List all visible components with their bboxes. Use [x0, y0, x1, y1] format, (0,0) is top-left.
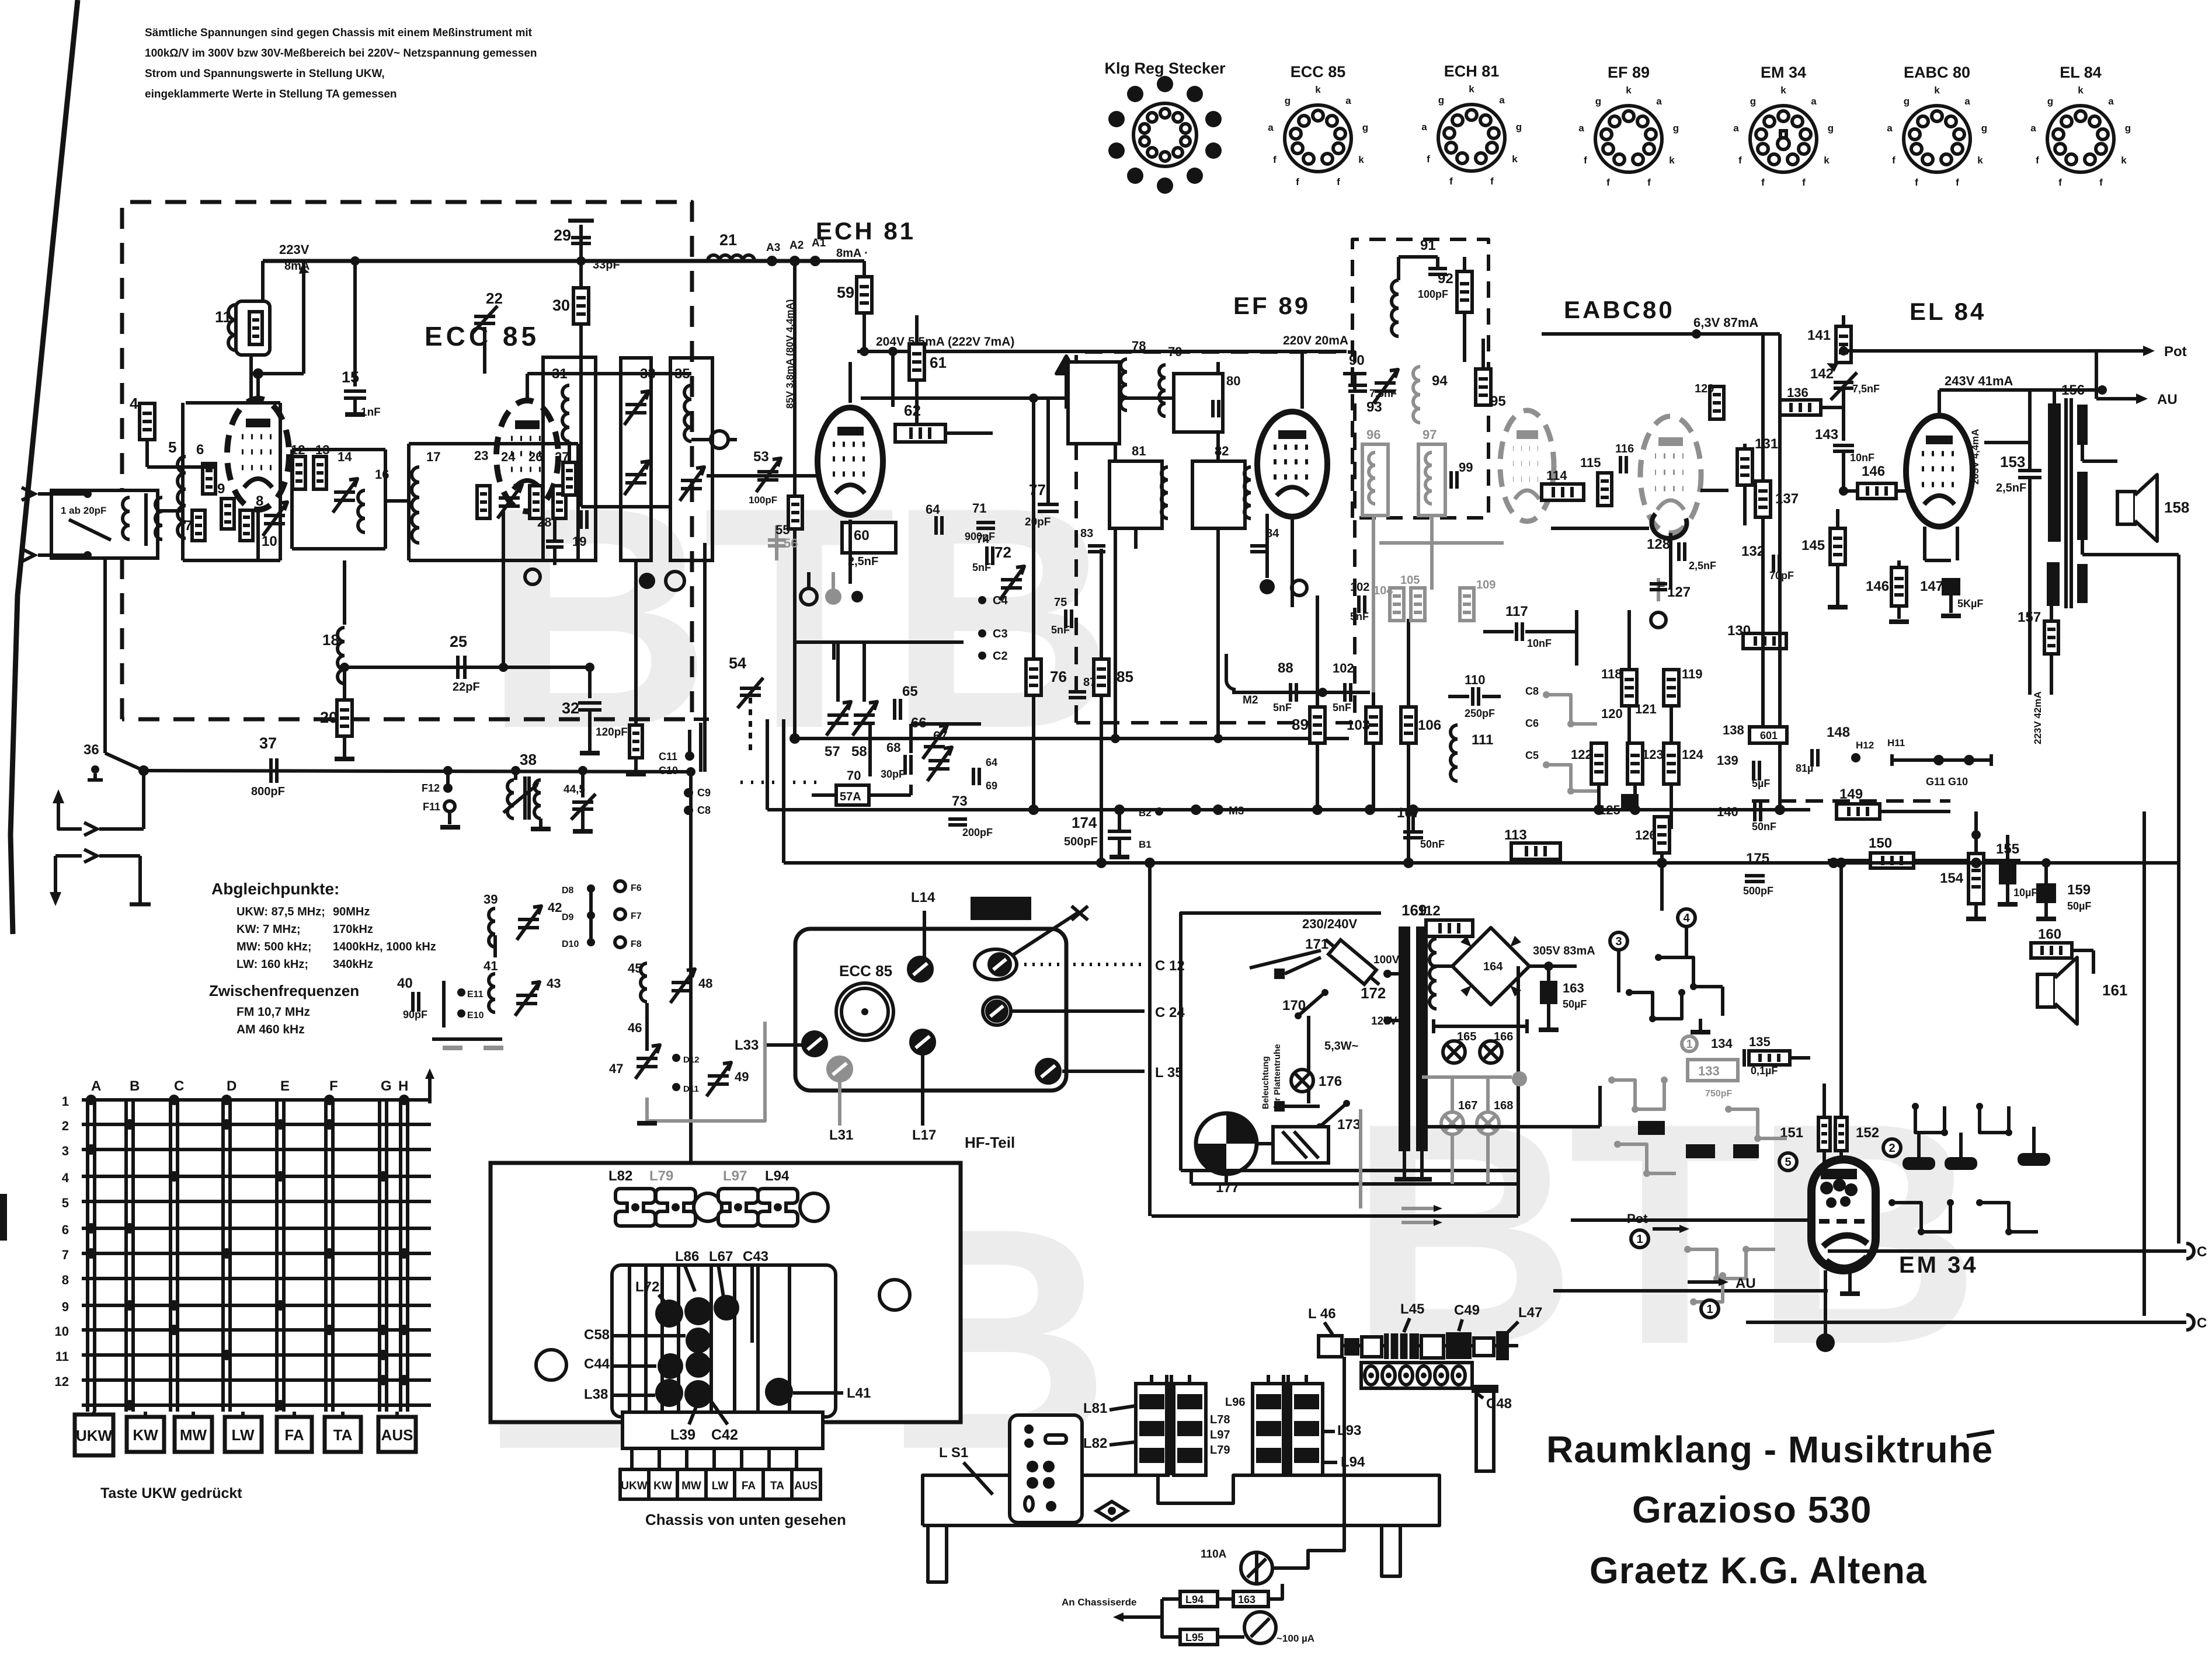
dash mark	[1967, 1431, 1994, 1436]
svg-text:UKW: UKW	[76, 1427, 113, 1444]
svg-text:7: 7	[185, 518, 192, 534]
tube EF 89	[1257, 412, 1327, 517]
svg-text:C8: C8	[1525, 685, 1539, 697]
svg-text:3: 3	[62, 1144, 69, 1158]
svg-text:25: 25	[450, 633, 467, 650]
capacitor 28	[579, 510, 583, 529]
trimmer 53	[707, 474, 818, 478]
capacitor 75	[1064, 609, 1067, 628]
svg-text:85V 3,8mA (80V 4,4mA): 85V 3,8mA (80V 4,4mA)	[784, 299, 795, 409]
svg-text:223V: 223V	[279, 242, 309, 257]
svg-text:g: g	[1828, 123, 1834, 134]
chassis leg 2	[1382, 1525, 1400, 1576]
wire osc cluster	[848, 520, 852, 584]
terminal F12	[446, 771, 450, 785]
svg-text:1nF: 1nF	[361, 406, 381, 419]
coil 18	[343, 560, 346, 625]
svg-text:f: f	[1915, 177, 1918, 188]
resistor 131	[1737, 449, 1752, 485]
svg-text:L 46: L 46	[1308, 1306, 1336, 1322]
svg-text:L93: L93	[1337, 1423, 1361, 1438]
svg-text:176: 176	[1319, 1074, 1342, 1089]
svg-text:103: 103	[1347, 717, 1370, 733]
svg-text:58: 58	[851, 744, 867, 760]
svg-text:a: a	[1268, 122, 1274, 133]
svg-text:f: f	[1490, 176, 1494, 187]
button TA	[325, 1417, 361, 1452]
svg-text:24: 24	[501, 450, 516, 464]
rectifier 164 bridge	[1452, 928, 1529, 1005]
svg-text:g: g	[1673, 123, 1679, 134]
svg-text:H11: H11	[1887, 737, 1905, 748]
svg-text:50nF: 50nF	[1420, 838, 1445, 850]
svg-text:72: 72	[994, 544, 1011, 561]
svg-text:Chassis von unten gesehen: Chassis von unten gesehen	[645, 1511, 846, 1528]
svg-text:133: 133	[1698, 1064, 1720, 1078]
resistor 8	[240, 510, 253, 541]
svg-text:2: 2	[1888, 1142, 1895, 1155]
tube EABC80 diode section dashed gray	[1500, 410, 1554, 521]
wire IF bottom bus	[795, 737, 1349, 740]
button MW	[175, 1417, 212, 1452]
wire AU arrow	[2096, 397, 2137, 400]
svg-text:C: C	[174, 1078, 184, 1094]
wire	[2053, 390, 2056, 403]
svg-text:L96: L96	[1225, 1396, 1245, 1409]
wire	[589, 889, 593, 942]
svg-text:161: 161	[2102, 981, 2127, 999]
svg-text:67: 67	[933, 729, 947, 743]
wire heater run	[1426, 1125, 1600, 1128]
pointer X	[996, 912, 1079, 966]
capacitor 83	[1088, 544, 1105, 548]
svg-text:10: 10	[262, 534, 277, 549]
button FA	[277, 1417, 312, 1452]
svg-text:140: 140	[1717, 804, 1738, 819]
resistor 151	[1818, 1117, 1830, 1151]
svg-text:1400kHz, 1000 kHz: 1400kHz, 1000 kHz	[333, 940, 436, 953]
resistor 118	[1622, 670, 1637, 706]
knob L17	[911, 1030, 934, 1054]
svg-text:Sämtliche Spannungen sind gege: Sämtliche Spannungen sind gegen Chassis …	[145, 27, 533, 39]
svg-text:k: k	[1780, 85, 1786, 96]
trimmer 22	[474, 315, 495, 318]
capacitor 102	[1357, 595, 1361, 613]
svg-text:L17: L17	[912, 1127, 936, 1143]
elco 163	[1540, 981, 1557, 1004]
switch contacts gray mid	[1546, 695, 1597, 724]
svg-text:59: 59	[837, 284, 854, 301]
svg-text:30pF: 30pF	[881, 768, 905, 780]
resistor 95	[1476, 369, 1491, 405]
coil tower L82b	[1174, 1384, 1206, 1475]
svg-text:22pF: 22pF	[453, 681, 480, 694]
wire psu bottom	[1225, 1174, 1228, 1184]
svg-text:92: 92	[1438, 271, 1453, 287]
svg-text:5: 5	[1785, 1156, 1791, 1169]
trimmer 58	[854, 713, 875, 717]
svg-text:223V 42mA: 223V 42mA	[2032, 691, 2043, 744]
svg-text:152: 152	[1856, 1125, 1879, 1141]
svg-text:L45: L45	[1400, 1301, 1424, 1317]
svg-text:158: 158	[2164, 499, 2189, 516]
resistor 61	[909, 344, 924, 380]
svg-text:FA: FA	[284, 1426, 304, 1444]
svg-text:L39: L39	[670, 1427, 695, 1443]
svg-text:145: 145	[1801, 538, 1825, 553]
resistor 104 gray	[1390, 588, 1404, 621]
svg-text:MW: MW	[681, 1480, 701, 1492]
svg-text:EL 84: EL 84	[1910, 298, 1986, 325]
svg-text:L72: L72	[635, 1279, 659, 1295]
wires AF	[1575, 610, 1578, 666]
svg-text:EM 34: EM 34	[1761, 64, 1806, 81]
svg-text:f: f	[1802, 177, 1806, 188]
IF can 80	[1174, 374, 1223, 432]
svg-text:f: f	[1273, 154, 1277, 165]
svg-text:91: 91	[1420, 238, 1436, 253]
box sub chassis	[612, 1265, 836, 1417]
svg-text:173: 173	[1337, 1117, 1361, 1133]
svg-text:170kHz: 170kHz	[333, 923, 373, 936]
svg-text:8: 8	[62, 1273, 69, 1287]
transformer output secondary	[2077, 405, 2088, 445]
svg-text:174: 174	[1072, 814, 1097, 831]
capacitor 29	[579, 225, 583, 261]
svg-text:26: 26	[528, 450, 542, 464]
wire	[812, 793, 836, 797]
svg-text:18: 18	[322, 631, 339, 649]
svg-text:L97: L97	[723, 1168, 747, 1184]
svg-text:81µ: 81µ	[1796, 762, 1813, 774]
svg-text:Beleuchtung: Beleuchtung	[1261, 1056, 1271, 1109]
input jack 1	[84, 823, 97, 835]
svg-text:AM 460 kHz: AM 460 kHz	[236, 1023, 305, 1036]
svg-text:169: 169	[1401, 901, 1427, 919]
svg-text:61: 61	[930, 354, 947, 371]
capacitor 110	[1471, 687, 1474, 706]
svg-text:L31: L31	[829, 1127, 853, 1143]
capacitor 60 box	[842, 522, 896, 553]
resistor 135	[1749, 1051, 1790, 1065]
strip L39 C42	[622, 1412, 823, 1448]
wire drop to chassis	[689, 772, 693, 1163]
svg-text:42: 42	[548, 900, 562, 915]
svg-text:43: 43	[547, 976, 561, 991]
svg-text:k: k	[1824, 155, 1830, 166]
resistor 36 output	[666, 572, 684, 590]
capacitor 63	[934, 516, 938, 535]
svg-text:L14: L14	[911, 890, 935, 905]
resistor 126	[1621, 794, 1639, 811]
svg-text:50µF: 50µF	[1563, 998, 1587, 1010]
transformer output primary	[2048, 403, 2061, 542]
svg-text:56: 56	[784, 536, 798, 551]
capacitor 87	[1069, 690, 1086, 694]
terminal M2	[1225, 654, 1228, 680]
svg-text:159: 159	[2067, 882, 2091, 898]
svg-text:C10: C10	[659, 765, 678, 776]
svg-text:L97: L97	[1210, 1429, 1230, 1441]
terminal dots sub chassis	[655, 1300, 683, 1328]
svg-text:L47: L47	[1518, 1305, 1542, 1321]
tube EM 34 envelope	[1811, 1159, 1876, 1270]
trimmer 33	[621, 358, 651, 560]
svg-text:163: 163	[1563, 981, 1584, 995]
svg-text:78: 78	[1132, 339, 1146, 353]
black rect marker	[971, 897, 1031, 920]
svg-text:64: 64	[986, 757, 997, 768]
resistor 115	[1598, 473, 1612, 506]
svg-text:138: 138	[1723, 723, 1744, 737]
svg-text:KW: 7 MHz;: KW: 7 MHz;	[236, 923, 301, 936]
svg-text:48: 48	[698, 976, 712, 991]
antenna arrow up	[58, 796, 82, 829]
resistor 123	[1627, 743, 1643, 784]
svg-text:114: 114	[1546, 468, 1567, 483]
svg-text:A: A	[91, 1078, 101, 1094]
resistor 76	[1026, 659, 1041, 695]
svg-text:46: 46	[628, 1020, 642, 1035]
lamp 166	[1480, 1041, 1502, 1063]
svg-text:Grazioso 530: Grazioso 530	[1632, 1489, 1872, 1531]
svg-text:C44: C44	[584, 1356, 610, 1372]
capacitor 102	[1343, 683, 1347, 702]
hole oval chassis	[1097, 1502, 1127, 1520]
socket ECC85 top view	[836, 983, 893, 1040]
wire	[848, 362, 852, 377]
svg-text:30: 30	[552, 297, 570, 314]
svg-text:Pot: Pot	[1627, 1211, 1648, 1226]
resistor 119	[1664, 670, 1679, 706]
svg-text:C3: C3	[993, 628, 1008, 640]
svg-text:L41: L41	[847, 1385, 871, 1401]
svg-text:~100 µA: ~100 µA	[1277, 1633, 1314, 1644]
hole circle 4	[879, 1280, 910, 1310]
svg-text:100pF: 100pF	[749, 494, 777, 506]
resistor 149	[1837, 804, 1880, 819]
coil 31	[527, 372, 691, 375]
motor 177	[1196, 1113, 1257, 1174]
svg-text:127: 127	[1667, 584, 1691, 600]
svg-text:G: G	[381, 1078, 392, 1094]
capacitor 134	[1743, 1049, 1746, 1067]
wire 88 row	[1232, 691, 1370, 694]
wire shaft down	[1340, 1437, 1341, 1475]
svg-text:57: 57	[825, 744, 840, 760]
svg-text:eingeklammerte Werte in Stellu: eingeklammerte Werte in Stellung TA geme…	[145, 88, 397, 100]
svg-text:L78: L78	[1210, 1413, 1230, 1426]
svg-text:2,5nF: 2,5nF	[848, 555, 878, 568]
svg-text:94: 94	[1432, 373, 1448, 389]
svg-text:220V 20mA: 220V 20mA	[1283, 334, 1348, 347]
svg-text:102: 102	[1350, 581, 1369, 594]
svg-text:110A: 110A	[1201, 1548, 1227, 1560]
svg-text:MW: 500 kHz;: MW: 500 kHz;	[236, 940, 312, 953]
svg-text:204V 5,5mA (222V 7mA): 204V 5,5mA (222V 7mA)	[876, 335, 1014, 349]
wire bus 37	[144, 771, 691, 772]
svg-text:105: 105	[1400, 574, 1420, 587]
svg-text:M2: M2	[1243, 694, 1258, 706]
button KW	[127, 1417, 164, 1452]
trimmer 72	[1001, 578, 1022, 581]
svg-text:f: f	[1296, 176, 1299, 187]
svg-text:C49: C49	[1454, 1302, 1480, 1318]
svg-text:93: 93	[1366, 399, 1382, 415]
button LW	[225, 1417, 262, 1452]
connector stubs	[630, 1448, 634, 1469]
svg-text:F11: F11	[423, 801, 440, 813]
svg-text:L 35: L 35	[1155, 1065, 1183, 1081]
svg-text:L79: L79	[1210, 1444, 1230, 1457]
svg-text:5nF: 5nF	[972, 562, 991, 573]
transformer 169 secondary	[1416, 926, 1428, 1151]
svg-text:131: 131	[1755, 436, 1778, 452]
svg-text:f: f	[1738, 155, 1742, 166]
capacitor 15	[353, 261, 357, 386]
coil 79	[1159, 365, 1166, 378]
svg-text:KW: KW	[133, 1426, 158, 1444]
svg-text:a: a	[1656, 96, 1662, 107]
wire AU bus	[1553, 1289, 1828, 1293]
svg-text:7: 7	[62, 1248, 69, 1262]
resistor 9	[221, 499, 234, 529]
svg-text:C 12: C 12	[1155, 958, 1185, 974]
svg-text:172: 172	[1361, 984, 1386, 1002]
coil 16	[358, 490, 365, 504]
terminal D8 D9 D10	[587, 884, 595, 893]
trimmer 67	[928, 759, 950, 762]
transformer 11	[236, 301, 270, 355]
svg-text:F12: F12	[422, 782, 440, 794]
box HF-Teil	[795, 929, 1066, 1091]
resistor box B	[1233, 1591, 1268, 1607]
svg-text:E: E	[280, 1078, 290, 1094]
resistor 160	[2031, 943, 2072, 958]
svg-text:8: 8	[256, 493, 263, 509]
svg-text:160: 160	[2038, 926, 2061, 942]
antenna input terminals	[22, 487, 34, 500]
svg-text:203V 4,4mA: 203V 4,4mA	[1970, 429, 1981, 485]
svg-text:ECH 81: ECH 81	[816, 217, 916, 245]
coil 91	[1392, 280, 1399, 294]
contact G11 G10	[1892, 758, 1991, 762]
svg-text:69: 69	[986, 780, 997, 792]
svg-text:H12: H12	[1856, 740, 1874, 751]
svg-text:L82: L82	[1083, 1436, 1107, 1451]
resistor 7	[192, 510, 205, 541]
svg-text:f: f	[1606, 177, 1610, 188]
coil 5	[178, 457, 186, 473]
capacitor 88	[1289, 683, 1292, 702]
wire	[1114, 444, 1117, 461]
svg-text:36: 36	[84, 742, 99, 758]
svg-text:5: 5	[62, 1196, 69, 1210]
wire	[1669, 533, 1672, 590]
svg-text:F8: F8	[631, 939, 642, 949]
svg-text:4: 4	[130, 395, 138, 412]
terminal M3	[1191, 804, 1201, 815]
svg-text:F6: F6	[631, 883, 642, 893]
svg-text:L S1: L S1	[939, 1445, 968, 1461]
svg-text:73: 73	[952, 793, 968, 809]
svg-text:k: k	[1669, 155, 1675, 166]
svg-text:1: 1	[62, 1094, 69, 1109]
svg-text:165: 165	[1457, 1030, 1476, 1043]
shaft assembly	[1317, 1344, 1518, 1347]
resistor 33 lower	[629, 725, 642, 758]
svg-text:113: 113	[1504, 827, 1527, 843]
trimmer 49	[708, 1074, 729, 1078]
svg-text:9: 9	[217, 481, 225, 497]
svg-text:L94: L94	[765, 1168, 789, 1184]
wire transformer drops	[1403, 1151, 1406, 1168]
resistor 92	[1457, 271, 1472, 312]
trimmer 10	[264, 514, 285, 517]
knob L35	[1037, 1060, 1060, 1083]
wire	[183, 559, 280, 562]
resistor 150	[1891, 802, 1893, 803]
svg-text:119: 119	[1682, 667, 1703, 681]
svg-text:601: 601	[1760, 730, 1778, 741]
circ1 terminal	[1631, 1230, 1648, 1248]
IF can 97 gray	[1418, 444, 1445, 515]
svg-text:110: 110	[1465, 673, 1486, 687]
resistor 114 box	[1542, 484, 1584, 500]
svg-text:200pF: 200pF	[962, 827, 993, 838]
terminal circ4	[1678, 909, 1695, 926]
svg-text:75: 75	[1054, 596, 1067, 609]
svg-text:109: 109	[1476, 579, 1495, 591]
svg-text:f: f	[2036, 155, 2039, 166]
svg-text:50µF: 50µF	[2067, 900, 2091, 912]
resistor 55	[788, 496, 802, 529]
svg-text:129: 129	[1695, 382, 1714, 395]
svg-text:118: 118	[1601, 667, 1622, 681]
svg-text:79: 79	[1168, 344, 1182, 359]
svg-text:Pot: Pot	[2164, 344, 2187, 360]
svg-text:C58: C58	[584, 1327, 610, 1343]
svg-text:10nF: 10nF	[1850, 452, 1874, 464]
svg-text:121: 121	[1635, 702, 1657, 716]
svg-text:5nF: 5nF	[1333, 702, 1351, 713]
speaker 158	[2117, 492, 2135, 524]
resistor 62 horizontal	[895, 424, 945, 442]
svg-text:29: 29	[554, 227, 571, 244]
svg-text:L38: L38	[584, 1387, 608, 1402]
svg-text:Graetz K.G. Altena: Graetz K.G. Altena	[1590, 1549, 1927, 1591]
capacitor 74	[985, 546, 989, 565]
wire right verticals	[2143, 811, 2146, 1316]
svg-text:76: 76	[1050, 668, 1067, 685]
IF can 81	[1110, 461, 1162, 528]
svg-text:f: f	[1956, 177, 1959, 188]
svg-text:32: 32	[562, 699, 579, 717]
svg-text:70: 70	[847, 768, 861, 783]
svg-text:154: 154	[1940, 870, 1964, 886]
svg-text:31: 31	[552, 366, 568, 382]
chassis side view base	[923, 1475, 1439, 1525]
decor edge mark	[0, 1194, 7, 1241]
resistor 141	[1836, 326, 1851, 363]
svg-text:a: a	[1499, 95, 1505, 106]
capacitor 56 gray	[775, 525, 778, 560]
resistor 138 box	[1750, 727, 1787, 743]
wire cluster 38-43	[442, 981, 446, 1027]
svg-text:10µF: 10µF	[2013, 887, 2037, 898]
resistor 105 gray	[1411, 588, 1425, 621]
svg-text:TA: TA	[770, 1480, 784, 1492]
